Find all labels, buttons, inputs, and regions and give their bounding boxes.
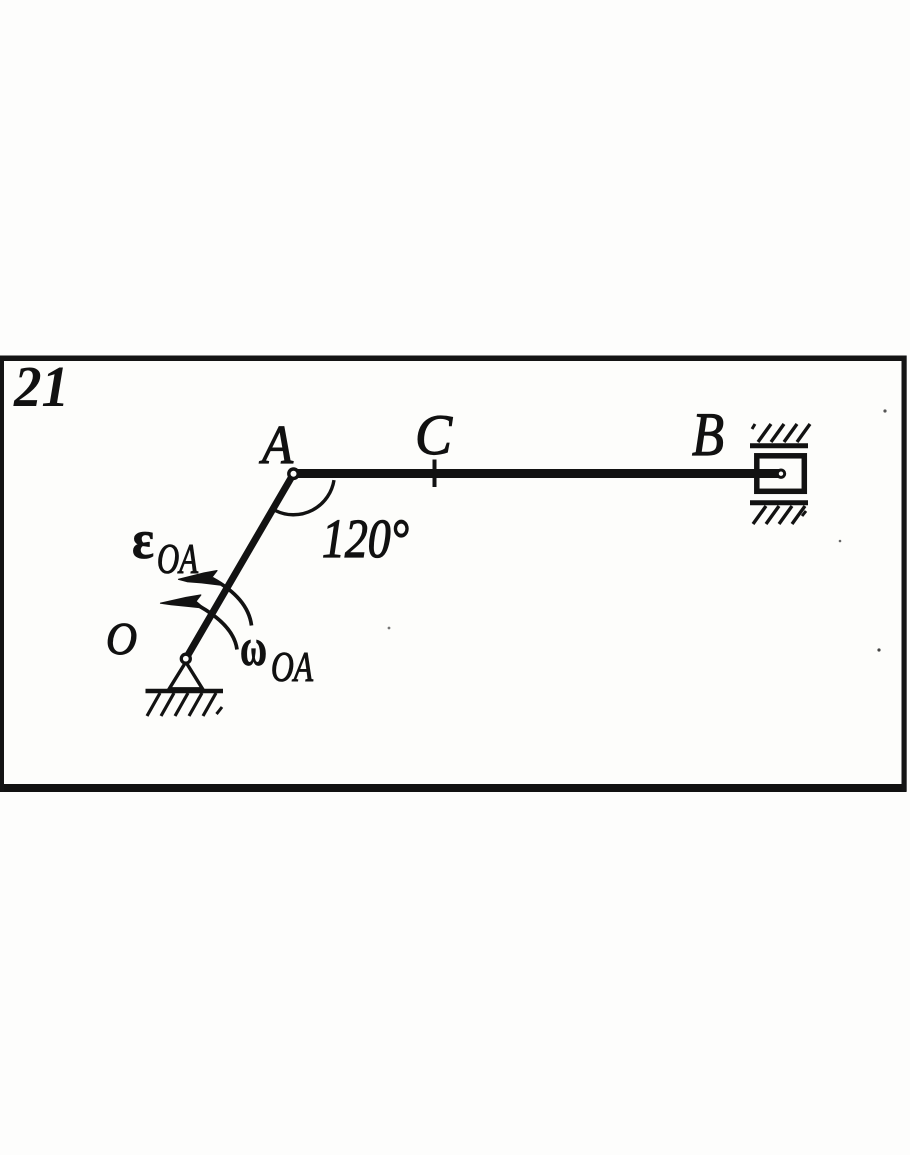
pivot support at O: triangle (169, 662, 202, 689)
svg-text:C: C (415, 404, 453, 467)
frame top border (0, 356, 907, 362)
ground hatching at O (147, 693, 216, 716)
frame bottom border (0, 784, 907, 792)
svg-text:OA: OA (271, 645, 313, 691)
omega arrow head (161, 595, 204, 608)
svg-text:120°: 120° (322, 508, 409, 569)
frame right border (902, 356, 907, 792)
ground line at O (146, 689, 224, 694)
svg-text:O: O (106, 613, 137, 664)
pin joint at O (181, 654, 190, 663)
angle arc 120 at A (276, 480, 335, 515)
link AB (connecting rod) (294, 469, 782, 478)
speck center (388, 627, 391, 630)
epsilon curved arrow tail (212, 579, 252, 626)
slider block at B (757, 456, 805, 492)
lower hatch tick (802, 511, 806, 516)
epsilon arrow head (179, 571, 221, 585)
svg-text:A: A (258, 414, 293, 475)
slider guide lower line at B (750, 500, 808, 505)
svg-text:ω: ω (240, 619, 267, 677)
pin joint at A (289, 469, 298, 478)
svg-text:B: B (692, 402, 724, 469)
speck top right (883, 409, 886, 412)
frame left border (0, 356, 4, 792)
link OA (crank) (186, 474, 294, 659)
slider guide lower hatching (753, 506, 805, 524)
speck right middle (877, 648, 880, 651)
ground hatch comma at O (217, 707, 223, 714)
slider guide upper line at B (750, 443, 808, 448)
svg-text:ε: ε (132, 509, 154, 570)
frame interior background (0, 355, 906, 792)
slider guide upper hatching (758, 424, 810, 442)
omega curved arrow tail (200, 607, 237, 650)
speck below omega (839, 540, 842, 543)
upper hatch tick (752, 424, 755, 429)
svg-text:21: 21 (13, 354, 69, 419)
tick mark at C (433, 460, 437, 488)
pin joint at B (777, 470, 784, 477)
